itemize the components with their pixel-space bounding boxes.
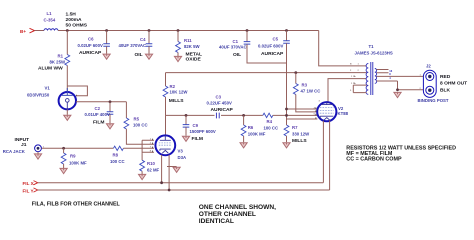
wire V3 plate vertical [165,115,167,135]
wire C2 to ground [109,114,111,123]
wire C9 to ground [185,127,187,136]
wire R6 column [243,115,245,125]
svg-text:C-354: C-354 [44,17,56,22]
tube V2 KT88 [317,102,336,121]
svg-text:0.01UF 400V: 0.01UF 400V [85,112,110,117]
svg-text:R6: R6 [248,125,254,130]
resistor R8 (series) [113,146,123,150]
svg-text:KT88: KT88 [338,111,349,116]
svg-text:1 1A: 1 1A [351,75,356,78]
svg-text:INPUT: INPUT [15,137,30,143]
svg-text:AURICAP: AURICAP [211,107,234,113]
svg-text:RED: RED [440,74,451,80]
T1 primary winding [366,64,368,95]
svg-text:J1: J1 [21,142,27,148]
node bus/R1 junction [66,29,69,32]
wire FIL X line [38,182,324,184]
svg-text:D3A: D3A [178,155,187,160]
svg-text:16: 16 [389,69,392,73]
T1 pin 4-5 jumper stubs [353,85,366,93]
svg-text:FILM: FILM [93,120,104,126]
wire V1 cathode to ground [66,109,68,114]
node secondary ground junction [396,88,399,91]
resistor R5 [124,118,129,129]
svg-text:0D3/VR150: 0D3/VR150 [27,93,50,98]
node C2 tap [109,100,112,103]
ground R6 [240,142,247,148]
wire V3 heater left to FIL X [161,155,163,183]
svg-text:R2: R2 [170,84,176,89]
wire C9 column [185,115,187,124]
wire plate line mid segment [221,114,263,116]
T1 core [371,62,373,95]
svg-text:50 OHMS: 50 OHMS [66,23,88,29]
wire bracket pin lines [142,140,154,152]
tube V1 0D3/VR150 [59,88,76,109]
svg-text:FIL X: FIL X [23,181,35,186]
wire V1 side pin to R5 column [76,101,126,103]
wire B+ to L1 [35,30,45,32]
wire C1 bottom to C5 bottom [247,44,287,63]
node FIL X arrow [34,181,38,185]
svg-text:62 MF: 62 MF [147,168,160,173]
ground C2 [106,123,113,129]
svg-text:MILLS: MILLS [169,98,184,104]
node FIL Y arrow [34,188,38,192]
ground J1 [34,154,41,160]
wire R11 to ground [177,53,179,57]
capacitor C2 [107,112,114,115]
svg-text:1.5H: 1.5H [66,12,77,18]
svg-text:R10: R10 [147,161,155,166]
svg-text:8K 25W: 8K 25W [50,60,66,65]
svg-text:5: 5 [350,90,352,92]
svg-text:100 CC: 100 CC [133,123,148,128]
node R9 tap [62,147,65,150]
ground R11 [174,56,181,62]
svg-text:C3: C3 [216,95,222,100]
resistor R4 (series) [263,113,273,117]
T1 secondary taps [377,70,424,82]
svg-text:1: 1 [358,64,360,66]
wire R7 to ground [286,136,288,142]
connector J2 binding post [423,70,436,97]
svg-text:C6: C6 [88,37,94,42]
wire top bus L1 to corner [58,30,319,32]
wire J1 to ground [37,152,39,154]
svg-text:1500PF 600V: 1500PF 600V [190,129,216,134]
wire bus corner to T1 pin1 [319,31,367,66]
wire R6 to ground [243,136,245,142]
svg-text:FILM: FILM [192,136,203,142]
svg-text:C9: C9 [193,123,199,128]
wire R8 to grid bracket [123,147,142,149]
svg-text:BINDING POST: BINDING POST [418,98,449,103]
wire bracket vertical [141,140,143,154]
svg-text:C1: C1 [233,39,239,44]
capacitor C4 [146,44,153,47]
capacitor C9 [183,125,190,128]
node B+ arrow [30,28,35,33]
svg-text:100 CC: 100 CC [110,159,125,164]
ground R7 [283,142,290,148]
node bracket corner [285,108,288,111]
wire V1 anode strap loop [67,86,87,96]
node bus/C1 junction [246,29,249,32]
wire V2 heater pin left to FIL X [322,121,324,183]
node bus/C6 junction [105,29,108,32]
node V3 heater junction on FIL X [160,181,163,184]
svg-text:1 2A: 1 2A [351,82,356,85]
svg-text:CC = CARBON COMP: CC = CARBON COMP [346,157,402,163]
wire R9 to ground [63,164,65,168]
svg-text:OTHER CHANNEL: OTHER CHANNEL [199,211,256,218]
svg-text:R11: R11 [184,38,192,43]
wire input line J1 to R8 [42,147,114,149]
resistor R3 [293,84,298,95]
node R7/C5 junction [285,114,288,117]
wire FIL Y line [38,189,330,191]
resistor R10 [140,160,145,171]
svg-text:ONE CHANNEL SHOWN,: ONE CHANNEL SHOWN, [199,204,276,211]
svg-text:R9: R9 [70,154,76,159]
svg-text:AURICAP: AURICAP [79,50,102,56]
wire V3 heater right to FIL Y [168,155,170,190]
node R6 tap [242,114,245,117]
ground V3 cathode [173,167,180,173]
node bus/R11 junction [177,29,180,32]
ground V1 [64,115,71,121]
ground R10 [139,174,146,180]
svg-text:40UF 370VAC: 40UF 370VAC [219,44,247,49]
svg-text:82K 5W: 82K 5W [184,44,200,49]
svg-text:RCA JACK: RCA JACK [3,149,26,154]
wire R2 bottom to plate line [165,97,167,115]
wire C6 to ground [106,46,108,53]
capacitor C5 [283,41,290,44]
svg-text:C5: C5 [273,37,279,42]
resistor R2 [163,86,168,97]
svg-text:200mA: 200mA [66,17,83,23]
svg-text:OIL: OIL [135,52,143,58]
svg-text:OXIDE: OXIDE [186,57,202,63]
connector J1 RCA jack [35,145,45,152]
svg-text:R4: R4 [267,119,273,124]
node R3 tap junction [294,71,297,74]
wire plate line right segment [273,114,318,116]
wire plate line left segment [166,114,215,116]
svg-text:100K MF: 100K MF [248,131,266,136]
svg-text:FIL Y: FIL Y [23,189,34,194]
svg-text:B: B [350,64,352,66]
wire R7 column [286,119,288,125]
svg-text:10K 12W: 10K 12W [170,90,189,95]
svg-text:B+: B+ [20,29,26,34]
svg-text:100K MF: 100K MF [69,161,87,166]
wire R3 to V2 grid bracket [296,95,318,112]
svg-text:T1: T1 [369,44,375,49]
svg-text:2: 2 [350,70,352,72]
wire R10 to ground [141,171,143,174]
wire V3 cathode jog to ground [167,166,177,168]
svg-text:0.22UF 450V: 0.22UF 450V [207,100,232,105]
wire V2 heater pin right to FIL Y [329,121,331,191]
svg-text:R7: R7 [292,125,298,130]
svg-text:AURICAP: AURICAP [261,51,284,57]
capacitor C6 [103,44,110,47]
ground secondary [394,92,401,98]
wire grid bracket top line [287,108,318,110]
node bus/C5 junction [285,29,288,32]
resistor R7 [284,125,289,136]
svg-text:0.02UF 600V: 0.02UF 600V [78,43,103,48]
node bus/C4 junction [148,29,151,32]
wire T1 pin3 to V2 plate [328,79,367,102]
ground C4 [145,54,152,60]
resistor R1 [65,55,70,66]
wire R2 top line to T1 pin2 [166,72,367,74]
svg-text:R5: R5 [134,117,140,122]
wire R2 column top [165,73,167,86]
svg-text:V1: V1 [45,86,51,91]
svg-text:IDENTICAL: IDENTICAL [199,218,234,225]
svg-text:MILLS: MILLS [292,138,307,144]
wire R5 column top [125,102,127,118]
wire secondary common to J2 [398,81,424,90]
capacitor C1 [244,42,251,45]
inductor L1 [44,29,58,31]
svg-text:40UF 370VAC: 40UF 370VAC [119,43,147,48]
wire C2 column [109,102,111,112]
wire C5 down to V2 grid node [286,43,288,119]
tube V3 D3A [155,135,175,155]
svg-text:R1: R1 [58,54,64,59]
svg-text:BLK: BLK [440,88,451,94]
svg-text:ALUM WW: ALUM WW [38,66,63,72]
wire bus to R11 [177,31,179,42]
wire R10 hang [141,154,143,160]
svg-text:FILA, FILB FOR OTHER CHANNEL: FILA, FILB FOR OTHER CHANNEL [32,202,121,208]
svg-text:100 CC: 100 CC [264,126,279,131]
svg-text:L1: L1 [47,11,53,16]
wire bus to C5 [286,31,288,41]
wire R5 bottom to grid bracket [126,129,142,144]
wire R1 to V1 plate [66,66,68,93]
svg-text:C2: C2 [95,106,101,111]
resistor R11 [176,42,181,53]
ground R9 [60,168,67,174]
svg-text:V3: V3 [178,149,184,154]
resistor R9 [61,153,66,164]
svg-text:3: 3 [319,101,321,103]
wire R9 column [63,148,65,153]
svg-text:J2: J2 [426,64,431,69]
svg-text:0.02UF 600V: 0.02UF 600V [258,43,283,48]
svg-text:2: 2 [358,70,360,72]
capacitor C3 (series) [216,113,219,119]
svg-text:8 OHM OUT: 8 OHM OUT [440,80,467,86]
wire C4 to ground [148,46,150,53]
svg-text:47 1W CC: 47 1W CC [301,89,321,94]
svg-text:JAMES JS-6123HS: JAMES JS-6123HS [355,50,393,55]
resistor R6 [241,125,246,136]
wire R3 column top [295,73,297,84]
svg-text:R8: R8 [113,153,119,158]
node V3 heater junction on FIL Y [168,189,171,192]
wire bus to C1 [246,31,248,42]
svg-text:330 12W: 330 12W [292,131,310,136]
T1 secondary winding [375,69,377,84]
node C9 tap [185,114,188,117]
wire grid bracket bottom line [287,118,318,120]
svg-text:R3: R3 [302,83,308,88]
wire bus to C6 [106,31,108,44]
svg-text:C4: C4 [140,37,146,42]
wire bus to R1 [66,31,68,55]
ground C9 [182,136,189,142]
wire bus to C4 [148,31,150,44]
svg-text:OIL: OIL [233,52,241,58]
ground C6 [103,54,110,60]
